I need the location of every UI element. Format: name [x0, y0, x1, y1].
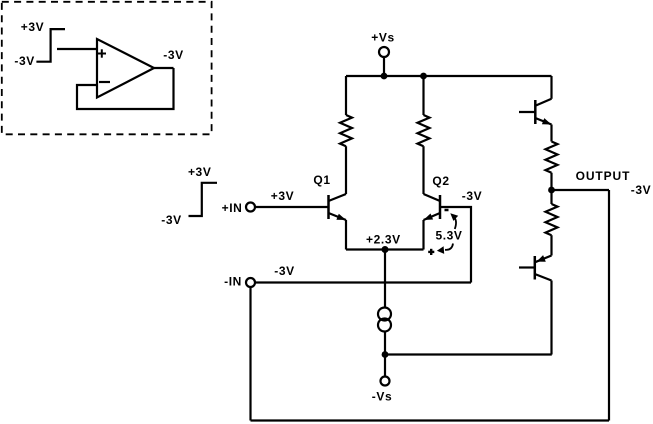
wire — [383, 57, 385, 76]
svg-text:5.3V: 5.3V — [435, 229, 462, 243]
wire — [255, 206, 328, 208]
+Vs terminal — [379, 47, 389, 57]
top rail wire — [346, 75, 552, 77]
plus polarity mark — [428, 249, 434, 255]
op-amp U1 — [97, 39, 154, 98]
bottom feedback wire — [251, 419, 610, 421]
wire — [519, 266, 535, 268]
terminal +IN — [246, 203, 255, 212]
transistor Q1 — [329, 194, 347, 220]
wire — [440, 207, 471, 283]
wire — [255, 281, 471, 283]
svg-text:-Vs: -Vs — [372, 390, 392, 404]
output wire — [552, 189, 610, 191]
resistor R2 — [418, 115, 430, 146]
transistor Q4 — [535, 255, 552, 280]
transistor Q3 — [535, 99, 551, 125]
wire — [57, 48, 97, 50]
resistor R3 — [546, 142, 558, 173]
svg-text:+3V: +3V — [271, 189, 295, 203]
curved arrow (lower) — [437, 244, 453, 254]
svg-text:-3V: -3V — [14, 54, 34, 68]
svg-text:+3V: +3V — [188, 165, 212, 179]
wire — [345, 76, 347, 115]
wire — [384, 250, 386, 308]
wire — [422, 76, 424, 115]
svg-text:Q1: Q1 — [313, 173, 330, 187]
wire — [550, 281, 552, 355]
svg-text:Q2: Q2 — [432, 174, 449, 188]
minus polarity mark — [445, 209, 449, 212]
wire — [550, 76, 552, 99]
inset input step waveform — [36, 29, 65, 62]
wire — [154, 67, 174, 69]
wire — [345, 146, 347, 194]
wire — [519, 111, 535, 113]
wire — [550, 125, 552, 142]
svg-text:-IN: -IN — [224, 275, 242, 289]
svg-text:+IN: +IN — [222, 201, 243, 215]
terminal -Vs — [381, 377, 390, 386]
transistor Q2 — [424, 194, 441, 220]
svg-text:OUTPUT: OUTPUT — [576, 169, 631, 183]
curved arrow (upper) — [450, 213, 458, 229]
wire — [345, 220, 347, 250]
resistor R4 — [546, 204, 558, 235]
emitter bar wire — [346, 248, 424, 250]
wire — [249, 287, 251, 421]
svg-text:+2.3V: +2.3V — [366, 232, 401, 246]
junction dot — [420, 73, 427, 80]
svg-text:-3V: -3V — [274, 264, 294, 278]
junction dot — [382, 246, 389, 253]
dashed inset box — [2, 2, 212, 135]
svg-text:-3V: -3V — [163, 48, 183, 62]
+IN input step waveform — [189, 183, 218, 216]
svg-text:-3V: -3V — [631, 183, 651, 197]
junction dot — [382, 351, 389, 358]
wire — [550, 190, 552, 204]
junction dot — [381, 73, 388, 80]
wire — [550, 173, 552, 190]
wire — [77, 68, 174, 109]
junction dot — [548, 187, 555, 194]
wire — [422, 146, 424, 194]
wire — [550, 235, 552, 255]
svg-text:-3V: -3V — [462, 189, 482, 203]
svg-text:-3V: -3V — [161, 213, 181, 227]
right feedback wire — [608, 190, 610, 421]
wire — [422, 220, 424, 250]
terminal -IN — [246, 278, 255, 287]
resistor R1 — [340, 115, 352, 146]
svg-text:+3V: +3V — [21, 20, 45, 34]
svg-text:+Vs: +Vs — [371, 31, 395, 45]
wire — [384, 332, 386, 355]
wire — [384, 355, 386, 377]
tail wire — [385, 353, 552, 355]
current source I1 — [378, 308, 391, 332]
